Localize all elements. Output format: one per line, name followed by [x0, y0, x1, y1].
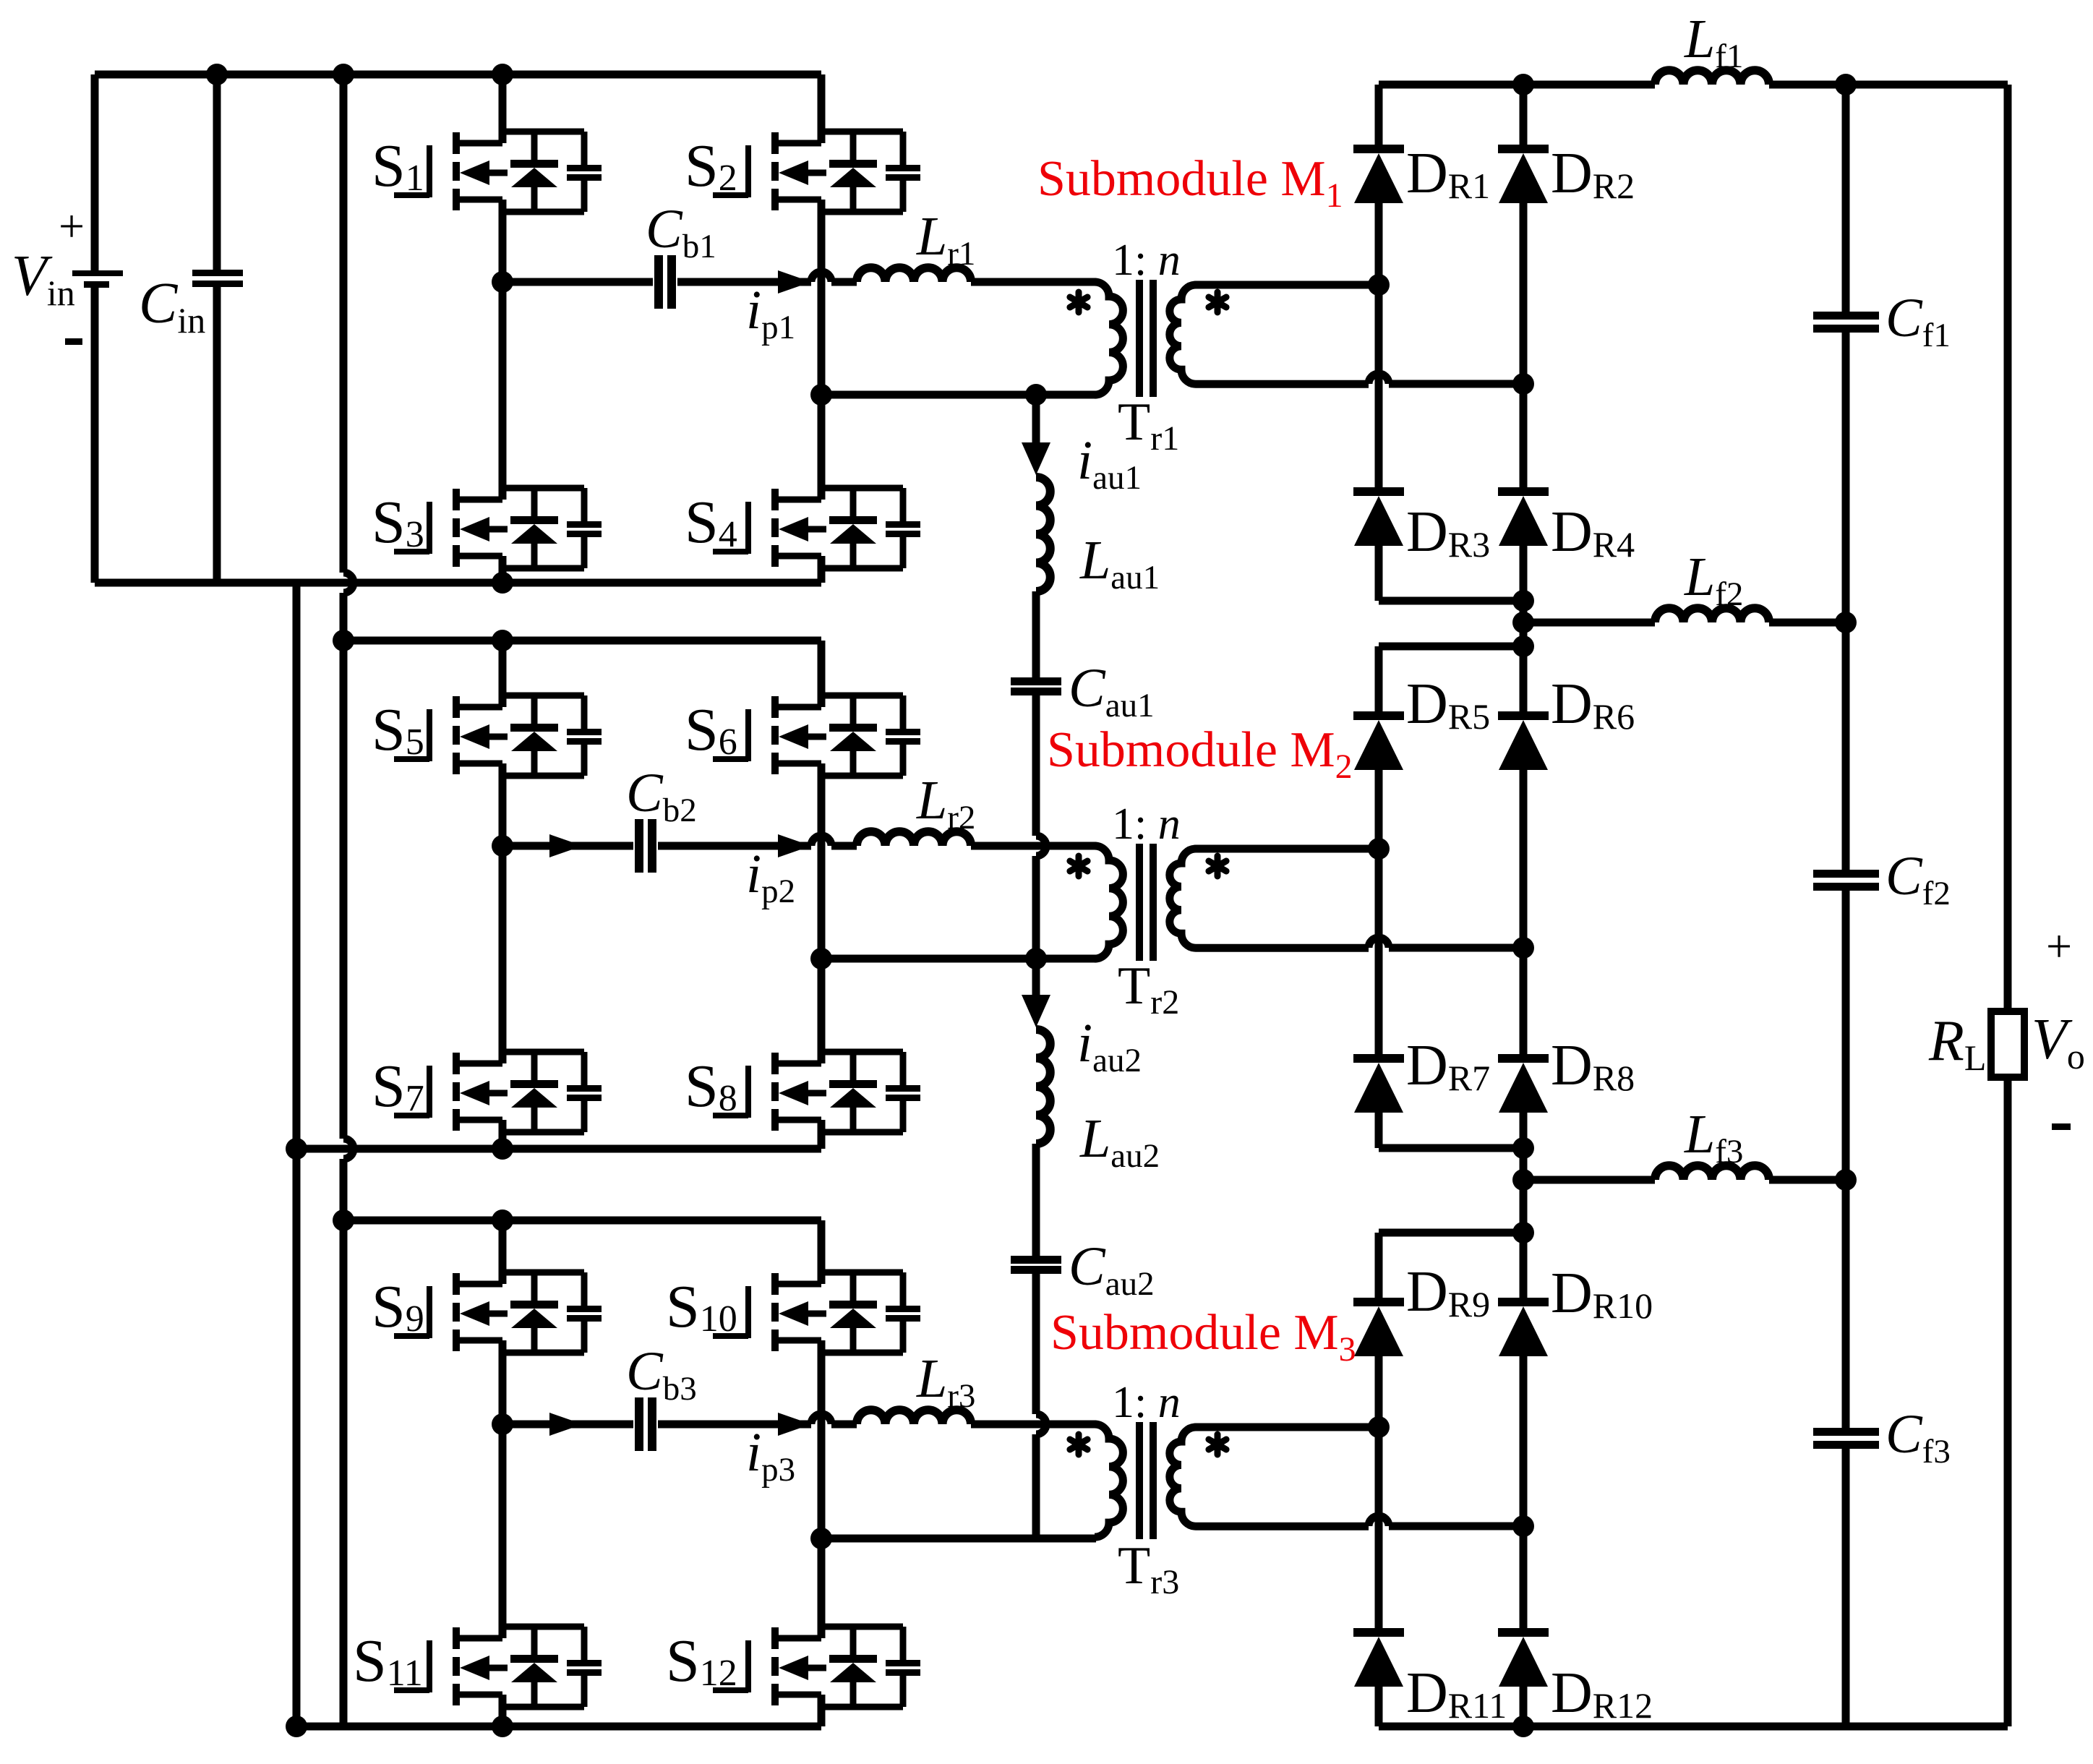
arrow iau1 [1022, 395, 1050, 475]
label 1:n Tr1 [1112, 236, 1181, 285]
label Tr3 [1118, 1536, 1179, 1601]
svg-text:S8: S8 [685, 1053, 737, 1120]
wire mid rail module 1 [502, 272, 857, 282]
diode DR10 [1498, 1298, 1549, 1356]
label S4 [685, 489, 737, 556]
transistor S12 [713, 1627, 920, 1707]
label Lf3 [1684, 1104, 1743, 1170]
label Submodule M2 [1047, 722, 1353, 786]
junction link 2 [1512, 1137, 1534, 1159]
capacitor Cb2 [635, 819, 656, 873]
label S11 [353, 1627, 423, 1695]
junction module 2 top rail leg [492, 630, 513, 651]
junction mid rail module 3 [492, 1413, 513, 1435]
transistor S5 [394, 695, 602, 776]
svg-text:DR8: DR8 [1551, 1034, 1635, 1098]
wire mid rail module 2 [502, 836, 857, 846]
label RL [1928, 1009, 1986, 1078]
wire right leg module 1 [818, 74, 826, 583]
junction rect1 top Cf [1835, 74, 1857, 95]
svg-text:Vo: Vo [2032, 1008, 2085, 1076]
transformer Tr1 core [1136, 280, 1157, 397]
wire rectifier link 1 [1379, 597, 1523, 605]
svg-text:Cau1: Cau1 [1069, 658, 1155, 724]
wire Lr1 to transformer [971, 278, 1096, 286]
label 1:n Tr2 [1112, 800, 1181, 849]
diode DR2 [1498, 145, 1549, 203]
svg-text:Lr3: Lr3 [916, 1348, 975, 1415]
wire primary return module 3 [821, 1535, 1096, 1543]
label S5 [372, 696, 424, 763]
wire module 3 bottom rail [296, 1723, 821, 1731]
svg-text:1: n: 1: n [1112, 236, 1181, 285]
junction Lf2 Cf [1835, 612, 1857, 633]
svg-text:Lr2: Lr2 [916, 770, 975, 836]
capacitor Cau1 [1011, 677, 1061, 695]
resistor RL [1991, 1011, 2024, 1077]
svg-text:Cb3: Cb3 [626, 1341, 697, 1408]
wire right leg module 2 [818, 641, 826, 1149]
label Lr1 [916, 206, 975, 273]
wire rectifier top rail 1 with Lf1 [1379, 81, 2008, 89]
label Cf1 [1886, 288, 1951, 354]
svg-text:1: n: 1: n [1112, 800, 1181, 849]
svg-text:Lr1: Lr1 [916, 206, 975, 273]
svg-text:Lau2: Lau2 [1079, 1108, 1160, 1175]
label Tr2 [1118, 956, 1179, 1022]
svg-text:RL: RL [1928, 1009, 1986, 1078]
svg-text:Vin: Vin [12, 244, 75, 313]
label Lau1 [1079, 530, 1160, 596]
wire positive bus [343, 74, 354, 1726]
svg-text:S10: S10 [666, 1273, 737, 1340]
label DR10 [1551, 1262, 1653, 1326]
arrow ip3 left [549, 1413, 583, 1436]
transistor S4 [713, 488, 920, 568]
label DR5 [1406, 672, 1490, 737]
junction module 2 top rail bus [333, 630, 354, 651]
junction Lf3 colB [1512, 1169, 1534, 1191]
wire Lau2 to Cau2 [1032, 1144, 1040, 1256]
junction Lf3 Cf [1835, 1169, 1857, 1191]
wire left leg module 2 [499, 641, 507, 1149]
svg-text:S9: S9 [372, 1273, 424, 1340]
junction module 3 top rail bus [333, 1209, 354, 1231]
label Submodule M1 [1037, 151, 1343, 215]
junction secondary bottom module 1 [1512, 373, 1534, 395]
junction primary return leg module 3 [810, 1528, 832, 1549]
svg-text:Submodule M2: Submodule M2 [1047, 722, 1353, 786]
junction primary return leg module 1 [810, 384, 832, 406]
svg-text:DR5: DR5 [1406, 672, 1490, 737]
svg-text:DR9: DR9 [1406, 1260, 1490, 1324]
transistor S10 [713, 1272, 920, 1353]
label Lr3 [916, 1348, 975, 1415]
svg-text:S11: S11 [353, 1627, 423, 1695]
label iau2 [1077, 1013, 1142, 1079]
junction secondary bottom module 2 [1512, 937, 1534, 959]
diode DR7 [1353, 1054, 1404, 1113]
svg-text:Tr3: Tr3 [1118, 1536, 1179, 1601]
svg-text:DR3: DR3 [1406, 500, 1490, 565]
wire Cf column [1842, 85, 1850, 1726]
svg-text:Submodule M3: Submodule M3 [1050, 1305, 1356, 1369]
svg-text:+: + [59, 200, 85, 252]
svg-text:S12: S12 [666, 1627, 737, 1695]
wire input bottom rail [95, 579, 821, 587]
label S10 [666, 1273, 737, 1340]
wire left leg module 1 [499, 74, 507, 583]
transistor S11 [394, 1627, 602, 1707]
label Vo [2032, 1008, 2085, 1076]
label DR2 [1551, 142, 1635, 206]
label ip1 [746, 280, 795, 346]
label DR1 [1406, 142, 1490, 206]
junction mid rail module 1 [492, 271, 513, 293]
capacitor Cau2 [1011, 1256, 1061, 1274]
junction top rail leg [492, 64, 513, 85]
diode DR12 [1498, 1628, 1549, 1687]
transformer Tr2 core [1136, 844, 1157, 961]
diode DR5 [1353, 711, 1404, 770]
label 1:n Tr3 [1112, 1378, 1181, 1427]
transformer Tr3 secondary [1170, 1427, 1523, 1526]
junction aux tap Tr1 [1025, 384, 1047, 406]
wire rectifier top rail 2 [1379, 643, 1523, 651]
transformer Tr1 primary [1095, 282, 1123, 395]
label Lf2 [1684, 547, 1743, 613]
wire Lr3 to transformer [971, 1421, 1096, 1429]
svg-text:Submodule M1: Submodule M1 [1037, 151, 1343, 215]
capacitor Cin [192, 270, 243, 287]
battery Vin [72, 270, 123, 288]
wire rectifier column B (full) [1520, 85, 1528, 1726]
svg-text:S5: S5 [372, 696, 424, 763]
wire Cin stub lower [213, 287, 221, 583]
wire Cau1 down [1036, 695, 1046, 959]
label - (input) [65, 338, 82, 345]
label Cin [139, 272, 205, 341]
label ip3 [746, 1422, 795, 1489]
svg-text:S4: S4 [685, 489, 737, 556]
capacitor Cb3 [635, 1397, 656, 1451]
svg-text:DR12: DR12 [1551, 1661, 1653, 1726]
capacitor Cf3 [1813, 1428, 1879, 1449]
polarity dot Tr3 primary [1070, 1434, 1087, 1455]
junction secondary top module 1 [1368, 274, 1390, 296]
transistor S1 [394, 132, 602, 212]
label DR9 [1406, 1260, 1490, 1324]
label S3 [372, 489, 424, 556]
label ip2 [746, 844, 795, 910]
svg-text:S1: S1 [372, 132, 424, 200]
wire Cau2 down [1036, 1274, 1046, 1538]
capacitor Cf1 [1813, 312, 1879, 333]
transistor S2 [713, 132, 920, 212]
label Cb3 [626, 1341, 697, 1408]
junction module 2 bottom rail leg [492, 1138, 513, 1160]
label S2 [685, 132, 737, 200]
polarity dot Tr2 secondary [1209, 856, 1226, 876]
wire right rail lower [2004, 1077, 2012, 1726]
wire right rail upper [2004, 85, 2012, 1011]
wire module 2 top rail [343, 637, 821, 645]
svg-text:S3: S3 [372, 489, 424, 556]
transistor S9 [394, 1272, 602, 1353]
label DR11 [1406, 1661, 1507, 1726]
svg-text:Lau1: Lau1 [1079, 530, 1160, 596]
svg-text:iau2: iau2 [1077, 1013, 1142, 1079]
junction top rail Cin [206, 64, 228, 85]
wire top rail [95, 71, 821, 79]
label S7 [372, 1053, 424, 1120]
label - (output) [2052, 1123, 2071, 1130]
transistor S7 [394, 1052, 602, 1132]
junction module 3 bottom rail leg [492, 1716, 513, 1737]
svg-text:Cf3: Cf3 [1886, 1404, 1951, 1470]
label Lau2 [1079, 1108, 1160, 1175]
wire left rail lower [91, 287, 99, 583]
svg-text:Lf1: Lf1 [1684, 9, 1743, 75]
label DR4 [1551, 500, 1635, 565]
label DR12 [1551, 1661, 1653, 1726]
transformer Tr2 secondary [1170, 849, 1523, 948]
transformer Tr1 secondary [1170, 285, 1523, 384]
arrow ip3 [778, 1413, 811, 1436]
wire left leg module 3 [499, 1220, 507, 1726]
svg-text:1: n: 1: n [1112, 1378, 1181, 1427]
transistor S6 [713, 695, 920, 776]
junction module 2 bottom rail bus [286, 1138, 307, 1160]
junction top rail bus [333, 64, 354, 85]
junction bottom rail colB [1512, 1716, 1534, 1737]
label Submodule M3 [1050, 1305, 1356, 1369]
wire left rail upper [91, 74, 99, 270]
transformer Tr3 core [1136, 1422, 1157, 1539]
svg-text:DR1: DR1 [1406, 142, 1490, 206]
junction primary return leg module 2 [810, 948, 832, 969]
inductor Lf1 [1655, 70, 1769, 85]
label DR7 [1406, 1034, 1490, 1098]
svg-text:DR10: DR10 [1551, 1262, 1653, 1326]
svg-text:S7: S7 [372, 1053, 424, 1120]
label DR6 [1551, 672, 1635, 737]
diode DR9 [1353, 1298, 1404, 1356]
junction mid rail module 2 [492, 835, 513, 857]
svg-text:S2: S2 [685, 132, 737, 200]
svg-text:Tr1: Tr1 [1118, 393, 1179, 458]
label + (output) [2046, 920, 2072, 972]
inductor Lr2 [857, 831, 971, 846]
label Tr1 [1118, 393, 1179, 458]
junction secondary bottom module 3 [1512, 1515, 1534, 1537]
label Vin [12, 244, 75, 313]
label Cb2 [626, 763, 697, 829]
wire rectifier column A module 1 [1375, 85, 1383, 601]
label Cau2 [1069, 1236, 1155, 1303]
wire Lau1 to Cau1 [1032, 591, 1040, 677]
svg-text:Cf1: Cf1 [1886, 288, 1951, 354]
inductor Lf3 [1655, 1165, 1769, 1180]
label S6 [685, 696, 737, 763]
svg-text:Lf2: Lf2 [1684, 547, 1743, 613]
label S1 [372, 132, 424, 200]
transformer Tr2 primary [1095, 846, 1123, 959]
wire mid rail module 3 [502, 1414, 857, 1424]
label Cb1 [646, 199, 716, 265]
wire module 3 top rail [343, 1217, 821, 1225]
label Cf2 [1886, 846, 1951, 912]
inductor Lf2 [1655, 608, 1769, 622]
polarity dot Tr1 secondary [1209, 292, 1226, 312]
junction link 1 [1512, 590, 1534, 612]
wire module 2 bottom rail [296, 1145, 821, 1153]
wire rectifier column A module 3 [1375, 1233, 1383, 1726]
diode DR8 [1498, 1054, 1549, 1113]
svg-text:Cb2: Cb2 [626, 763, 697, 829]
polarity dot Tr1 primary [1070, 292, 1087, 312]
junction rect2 top colB [1512, 635, 1534, 657]
label Cf3 [1886, 1404, 1951, 1470]
junction module 1 bottom rail leg [492, 572, 513, 594]
wire Cin stub upper [213, 74, 221, 270]
svg-text:DR6: DR6 [1551, 672, 1635, 737]
junction secondary top module 2 [1368, 838, 1390, 860]
wire primary return module 1 [821, 391, 1096, 399]
svg-text:DR11: DR11 [1406, 1661, 1507, 1726]
svg-text:DR2: DR2 [1551, 142, 1635, 206]
polarity dot Tr2 primary [1070, 856, 1087, 876]
wire negative bus [293, 583, 301, 1726]
wire Lf3 row [1523, 1176, 1846, 1184]
svg-text:Cf2: Cf2 [1886, 846, 1951, 912]
svg-text:Cb1: Cb1 [646, 199, 716, 265]
junction module 3 top rail leg [492, 1209, 513, 1231]
diode DR4 [1498, 487, 1549, 546]
label iau1 [1077, 430, 1142, 497]
diode DR6 [1498, 711, 1549, 770]
inductor Lr3 [857, 1410, 971, 1424]
polarity dot Tr3 secondary [1209, 1434, 1226, 1455]
diode DR11 [1353, 1628, 1404, 1687]
inductor Lr1 [857, 267, 971, 282]
arrow ip2 [778, 834, 811, 857]
junction rect3 top colB [1512, 1222, 1534, 1243]
svg-text:DR7: DR7 [1406, 1034, 1490, 1098]
label S12 [666, 1627, 737, 1695]
svg-text:Cau2: Cau2 [1069, 1236, 1155, 1303]
wire rectifier link 2 [1379, 1144, 1523, 1152]
label S9 [372, 1273, 424, 1340]
label DR8 [1551, 1034, 1635, 1098]
wire Lr2 to transformer [971, 842, 1096, 850]
transformer Tr3 primary [1095, 1424, 1123, 1537]
wire rectifier column A module 2 [1375, 646, 1383, 1148]
wire output bottom rail [1379, 1723, 2008, 1731]
diode DR1 [1353, 145, 1404, 203]
wire primary return module 2 [821, 955, 1096, 963]
junction aux tap Tr2 [1025, 948, 1047, 969]
inductor Lau2 [1036, 1029, 1050, 1144]
label DR3 [1406, 500, 1490, 565]
svg-text:S6: S6 [685, 696, 737, 763]
junction module 3 bottom rail bus [286, 1716, 307, 1737]
wire rectifier top rail 3 [1379, 1229, 1523, 1237]
wire right leg module 3 [818, 1220, 826, 1726]
label Lr2 [916, 770, 975, 836]
transistor S3 [394, 488, 602, 568]
arrow ip2 left [549, 834, 583, 857]
arrow iau2 [1022, 959, 1050, 1027]
junction secondary top module 3 [1368, 1416, 1390, 1438]
label S8 [685, 1053, 737, 1120]
svg-text:DR4: DR4 [1551, 500, 1635, 565]
arrow ip1 [778, 270, 811, 294]
junction rect1 top colB [1512, 74, 1534, 95]
label Cau1 [1069, 658, 1155, 724]
inductor Lau1 [1036, 477, 1050, 591]
svg-text:Lf3: Lf3 [1684, 1104, 1743, 1170]
junction Lf2 colB [1512, 612, 1534, 633]
transistor S8 [713, 1052, 920, 1132]
diode DR3 [1353, 487, 1404, 546]
label + (input) [59, 200, 85, 252]
label Lf1 [1684, 9, 1743, 75]
capacitor Cf2 [1813, 870, 1879, 891]
svg-text:Tr2: Tr2 [1118, 956, 1179, 1022]
wire Lf2 row [1523, 619, 1846, 627]
capacitor Cb1 [654, 255, 676, 309]
svg-text:+: + [2046, 920, 2072, 972]
